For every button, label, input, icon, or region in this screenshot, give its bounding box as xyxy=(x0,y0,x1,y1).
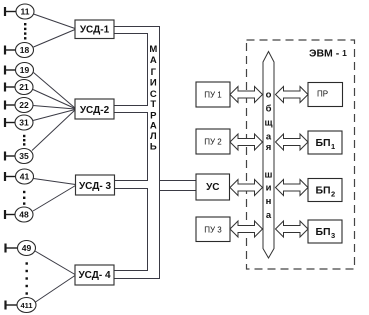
svg-text:ш: ш xyxy=(265,170,273,181)
arrow PU2 to bus xyxy=(230,134,263,150)
arrow PU1 to bus xyxy=(230,87,263,103)
sensor 11 xyxy=(5,4,34,19)
svg-text:БП: БП xyxy=(315,185,330,197)
svg-text:ПУ 3: ПУ 3 xyxy=(204,225,222,234)
svg-text:БП: БП xyxy=(315,137,330,149)
svg-text:49: 49 xyxy=(22,243,32,253)
svg-text:и: и xyxy=(266,183,272,194)
arrow bus to BP2 xyxy=(276,180,309,196)
svg-text:18: 18 xyxy=(20,45,30,55)
arrow bus to PR xyxy=(276,87,309,103)
wire 31 to USD-2 xyxy=(33,110,75,121)
box USD-2 xyxy=(75,99,114,119)
sensor 21 xyxy=(5,80,33,95)
dots between 49 and 411 xyxy=(26,262,28,294)
wire USD-1 bottom to left trunk line, down to USD-2 top xyxy=(114,34,148,106)
sensor 49 xyxy=(6,241,36,256)
wire USD-3 bottom to left trunk line, down to USD-4 top xyxy=(114,189,148,271)
svg-text:21: 21 xyxy=(19,82,29,92)
box US xyxy=(196,174,230,200)
arrow bus to BP3 xyxy=(276,221,309,237)
svg-text:УС: УС xyxy=(206,182,219,193)
svg-text:УСД- 4: УСД- 4 xyxy=(78,270,111,281)
svg-text:н: н xyxy=(266,196,272,207)
sensor 35 xyxy=(5,149,33,164)
svg-text:Ь: Ь xyxy=(150,141,157,152)
sensor 48 xyxy=(5,207,33,222)
wire trunk to US bottom xyxy=(160,190,197,192)
svg-text:Т: Т xyxy=(150,99,156,110)
svg-text:48: 48 xyxy=(19,210,29,220)
wire 49 to USD-4 xyxy=(35,251,75,275)
bus (obshchaya shina) xyxy=(263,52,274,259)
sensor 41 xyxy=(5,169,34,184)
svg-text:35: 35 xyxy=(19,151,29,161)
svg-text:411: 411 xyxy=(20,301,32,310)
svg-text:М: М xyxy=(149,44,157,55)
arrow US to bus xyxy=(230,180,263,196)
svg-text:б: б xyxy=(266,104,272,115)
wire 411 to USD-4 xyxy=(36,276,76,303)
label obshchaya shina (vertical) xyxy=(264,90,272,222)
sensor 19 xyxy=(5,63,34,78)
svg-text:о: о xyxy=(266,90,272,101)
svg-text:ЭВМ - 1: ЭВМ - 1 xyxy=(309,48,347,60)
box BP2 xyxy=(308,179,342,202)
svg-text:БП: БП xyxy=(315,226,330,238)
dots between 11 and 18 xyxy=(24,23,26,40)
svg-text:22: 22 xyxy=(19,100,29,110)
svg-text:ПУ 2: ПУ 2 xyxy=(204,138,222,147)
box PU1 xyxy=(196,82,230,107)
wire USD-2 bottom to left trunk line, down to USD-3 top xyxy=(114,113,148,181)
svg-text:а: а xyxy=(266,210,272,221)
arrow PU3 to bus xyxy=(230,221,263,237)
svg-text:А: А xyxy=(150,121,157,132)
box PU3 xyxy=(196,217,230,242)
dots between 41 and 48 xyxy=(23,191,25,205)
sensor 31 xyxy=(5,115,33,130)
wire 35 to USD-2 xyxy=(32,110,75,151)
svg-text:ПР: ПР xyxy=(317,90,328,99)
wire 11 to USD-1 xyxy=(34,14,76,29)
svg-text:Г: Г xyxy=(151,67,157,78)
wire 48 to USD-3 xyxy=(33,186,76,212)
svg-text:19: 19 xyxy=(20,65,30,75)
svg-text:31: 31 xyxy=(19,118,29,128)
arrow bus to BP1 xyxy=(276,134,309,150)
dashed frame EVM-1 xyxy=(247,40,355,269)
box PR xyxy=(308,83,343,107)
box PU2 xyxy=(196,129,230,154)
svg-text:1: 1 xyxy=(331,142,335,151)
box USD-4 xyxy=(75,265,114,285)
svg-text:УСД- 3: УСД- 3 xyxy=(79,181,112,192)
wire trunk to US top xyxy=(160,180,197,182)
sensor 18 xyxy=(5,43,34,58)
box BP3 xyxy=(308,220,342,243)
svg-text:И: И xyxy=(150,77,157,88)
box BP1 xyxy=(308,131,342,154)
box USD-3 xyxy=(76,175,115,195)
svg-text:41: 41 xyxy=(20,172,30,182)
box USD-1 xyxy=(75,20,114,39)
svg-text:3: 3 xyxy=(331,231,335,240)
svg-text:щ: щ xyxy=(264,118,272,129)
wire 18 to USD-1 xyxy=(34,30,76,48)
wire 19 to USD-2 xyxy=(34,73,76,109)
svg-text:А: А xyxy=(150,55,157,66)
svg-text:11: 11 xyxy=(21,7,30,17)
wire USD-1 top to right trunk line xyxy=(114,27,160,279)
svg-text:ПУ 1: ПУ 1 xyxy=(204,91,222,100)
label MAGISTRAL (vertical) xyxy=(149,44,157,152)
svg-text:УСД-1: УСД-1 xyxy=(80,24,110,35)
wire 41 to USD-3 xyxy=(34,179,76,185)
sensor 22 xyxy=(5,98,33,113)
wire 21 to USD-2 xyxy=(33,90,75,109)
svg-text:2: 2 xyxy=(331,190,335,199)
dots between 31 and 35 xyxy=(23,135,25,146)
sensor 411 xyxy=(6,298,37,313)
svg-text:УСД-2: УСД-2 xyxy=(80,105,110,116)
svg-text:я: я xyxy=(266,142,272,153)
wire 22 to USD-2 xyxy=(33,106,75,110)
